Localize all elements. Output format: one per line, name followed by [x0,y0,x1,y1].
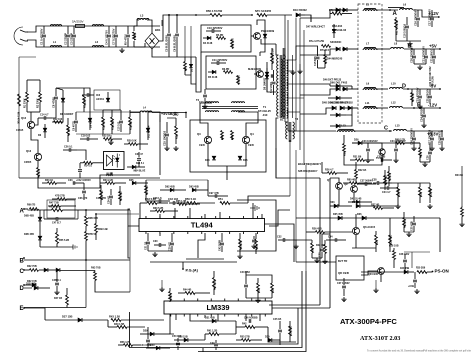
capacitor C15b [314,50,320,68]
svg-text:C10 225/50V: C10 225/50V [207,26,223,30]
diode D92 [160,186,186,192]
svg-text:C23 1000/16V: C23 1000/16V [362,140,378,143]
svg-text:R3 150K: R3 150K [84,98,87,108]
svg-text:C13: C13 [199,101,204,104]
wire [202,348,204,352]
inductor L7 [363,42,377,51]
node A label [20,208,25,214]
inductor L13 [337,124,355,133]
svg-text:R44 4B: R44 4B [183,289,192,292]
capacitor C20 [410,46,417,64]
ground [152,252,157,257]
resistor R24c [455,174,465,227]
svg-text:C34: C34 [328,236,333,239]
diode stack2 [328,96,352,100]
wire [461,166,463,206]
svg-text:D9 4148: D9 4148 [90,118,93,128]
IC TL431 [376,149,385,160]
bridge rectifier BD1 [145,28,161,49]
diode D47 [332,24,335,38]
RC box [47,200,75,218]
svg-text:R69: R69 [420,153,423,158]
transistor Q4 [242,132,254,147]
svg-text:D4 4148: D4 4148 [203,42,213,45]
svg-text:R26 4.7: R26 4.7 [325,169,334,172]
wire [235,326,237,328]
svg-text:R49: R49 [170,294,173,299]
wire [342,9,358,11]
label R7a [309,40,325,43]
wire [208,144,246,166]
svg-text:D40: D40 [150,344,155,347]
main HV bus [285,15,288,131]
wire [363,267,365,269]
resistor R37 [429,183,433,203]
svg-text:R3B 63B: R3B 63B [88,217,98,220]
wire [19,57,36,178]
diode stack4 [330,124,346,128]
ground [421,123,426,128]
resistor R37b [371,204,394,210]
wire [185,75,196,84]
svg-text:5A/250V: 5A/250V [72,20,84,24]
wire [248,196,290,203]
svg-text:C37 560/4V: C37 560/4V [360,180,373,183]
capacitor C44 [140,334,151,348]
svg-text:BD1: BD1 [155,28,161,32]
diode D31 [200,317,236,323]
secondary taps [287,60,304,112]
svg-text:C22 1000/10: C22 1000/10 [431,48,434,63]
svg-text:R30 56B: R30 56B [120,191,123,201]
svg-text:NTC SCK055: NTC SCK055 [255,9,272,13]
wire [159,115,161,175]
svg-text:R9 10K: R9 10K [68,127,71,136]
resistor R23 [42,179,66,184]
wire [19,177,160,179]
wire [407,130,443,132]
wire [404,48,441,50]
wire [147,327,149,334]
resistor R69 [419,143,423,162]
capacitor C8 [52,88,59,110]
wire [377,107,388,109]
svg-text:R48 1BB: R48 1BB [214,280,217,290]
svg-text:R7B 5K: R7B 5K [88,233,97,236]
svg-text:R45: R45 [256,245,259,250]
svg-text:R58 4.7/0.5W: R58 4.7/0.5W [206,9,223,13]
wire [413,10,440,18]
svg-text:R47: R47 [312,247,315,252]
svg-text:C49: C49 [210,342,215,345]
svg-text:C18 1000/16: C18 1000/16 [404,23,407,38]
svg-text:R26 45B: R26 45B [312,228,322,231]
svg-text:B: B [20,259,25,265]
wire [95,285,105,292]
wire [148,233,256,236]
capacitor C2 [64,26,71,47]
ground [373,280,378,293]
rectifier D23 [330,102,353,111]
svg-text:D35 45B: D35 45B [333,213,343,216]
resistor R75b [324,50,328,68]
wire [261,39,276,44]
capacitor C36b [78,183,88,200]
wire [290,239,312,241]
IC U1 TL494 [139,216,265,234]
node E label [20,306,25,312]
capacitor C23 [416,87,423,104]
svg-text:C6 B.EL/200V: C6 B.EL/200V [173,35,177,52]
svg-text:R20: R20 [176,134,179,139]
svg-text:R50 5.1K: R50 5.1K [185,197,196,201]
svg-text:C50 104: C50 104 [172,335,182,338]
diode D36 [357,213,366,220]
capacitor C98 [152,197,170,203]
svg-text:C28 1B: C28 1B [389,172,392,181]
svg-text:C24 470/16V: C24 470/16V [420,106,424,122]
ground [365,158,370,163]
wire [338,203,340,206]
resistor R46 [239,236,243,254]
wire [159,15,175,41]
wire [105,291,130,293]
svg-text:R47 1B: R47 1B [54,297,62,300]
right mid extra4 [377,156,392,162]
svg-text:D27 15B: D27 15B [62,315,73,319]
resistor R36 [389,245,399,269]
wire [279,340,281,345]
svg-text:D44 MBRC45: D44 MBRC45 [327,58,343,61]
wire pins LM339 bottom [176,314,260,321]
wire [76,112,130,134]
svg-text:C8 47/50: C8 47/50 [52,97,56,108]
node D [402,84,409,90]
wire [128,209,139,226]
vertical bus mid [290,140,306,271]
svg-text:D29: D29 [143,330,148,333]
wire [134,20,139,26]
varistor RV1 [124,26,131,47]
resistor R55 [236,336,262,342]
diode D26 [352,139,370,145]
wire [420,161,430,163]
wire [146,179,208,181]
wire [139,203,141,219]
svg-text:L15: L15 [395,124,400,128]
capacitor C33 [319,242,325,258]
wire [103,109,121,111]
svg-text:R8 2.7K: R8 2.7K [232,38,235,47]
wire [77,150,86,160]
resistor R67c [145,180,149,199]
optocoupler IC2 [104,152,125,177]
label R62v [432,75,435,86]
wire [351,86,353,89]
resistor R67a [44,206,78,212]
svg-text:ATX-310T 2.03: ATX-310T 2.03 [360,335,400,342]
svg-text:R66 7B: R66 7B [27,204,36,207]
diode D62a [48,268,60,272]
svg-text:R28 10B: R28 10B [389,245,399,248]
ground [237,254,242,259]
svg-text:R46 15B: R46 15B [240,240,243,250]
label C22v [430,66,432,86]
resistor R73 [329,9,352,15]
wire [200,103,212,136]
svg-text:R80 4B: R80 4B [347,179,356,182]
sideways ground [70,245,77,250]
transistor Q6 [353,225,376,235]
label D48 [322,101,348,105]
svg-text:L12: L12 [391,101,396,105]
rectifier D20 [332,8,347,32]
ground [422,162,427,167]
svg-text:C2655: C2655 [24,161,32,164]
capacitor C46 [244,317,258,323]
svg-text:R17 4.7K: R17 4.7K [103,119,106,130]
diode D13 [265,68,269,80]
wire [389,218,391,228]
svg-text:R7 2.7K: R7 2.7K [238,75,241,84]
svg-text:D40 45B: D40 45B [400,267,410,270]
svg-text:C9 47/25: C9 47/25 [73,120,76,131]
resistor R30 [119,186,123,205]
svg-text:C42 500B: C42 500B [219,240,222,251]
diode D9 [88,110,92,130]
diode D6 [38,124,47,138]
svg-text:R3B 14B: R3B 14B [98,228,108,231]
transistor Q13 [24,149,42,164]
svg-text:R52: R52 [258,288,261,293]
svg-text:R55 27B: R55 27B [240,336,250,339]
wire [414,63,426,65]
subtitle ATX-310T [360,335,400,342]
svg-text:D93 45B: D93 45B [189,186,199,189]
svg-text:R23 10K: R23 10K [316,244,326,247]
diode D3Bd [24,283,38,290]
wire [300,10,336,18]
ground [395,204,432,209]
inductor L8 [391,42,404,50]
capacitor C38b [399,254,410,272]
svg-text:C15 B25: C15 B25 [314,56,317,66]
resistor R61 [395,17,399,41]
diode D25 [129,179,148,185]
wire [318,67,326,69]
wire [198,271,306,352]
wire [186,258,224,260]
svg-text:B1: B1 [280,118,284,122]
svg-text:C33: C33 [319,252,322,257]
diode D15 [238,156,248,162]
label C4B47B [95,197,108,240]
diode D60 [24,210,42,228]
wire [416,142,420,144]
wire [355,214,357,218]
wire [27,26,160,32]
wire [300,89,336,95]
capacitor C38 [372,179,392,185]
resistor R52 [257,278,261,298]
svg-text:D11 FR104: D11 FR104 [148,125,151,138]
wire [276,130,320,178]
ground [417,65,422,70]
inductor L2 [92,25,103,47]
svg-text:ATX-300P4-PFC: ATX-300P4-PFC [340,317,397,326]
svg-text:R23 1K: R23 1K [45,179,54,182]
resistor R12 [53,118,63,123]
wire [152,49,166,57]
wire [260,42,265,52]
ground [290,70,295,75]
svg-text:光耦: 光耦 [105,172,113,177]
capacitor C4 [105,26,112,47]
svg-text:C33: C33 [68,179,73,182]
wire [27,111,40,113]
wire [238,112,258,136]
svg-text:L1: L1 [53,40,57,44]
capacitor C1 [40,26,47,47]
svg-text:Q6 A1015: Q6 A1015 [363,225,376,229]
resistor R8 [231,38,235,49]
svg-text:Q13: Q13 [26,149,32,153]
resistor R33 [140,197,168,205]
inductor L5 [363,3,377,12]
diode D28 [174,336,205,342]
resistor R42 [236,323,268,329]
wire [377,48,390,50]
wire [267,80,276,92]
resistor R18 [111,110,115,134]
IC U2 LM339 [164,299,272,317]
wire [31,129,38,153]
wire [404,252,430,268]
resistor R7 [237,75,241,85]
svg-text:R31 B6: R31 B6 [353,156,362,159]
svg-text:R29 10K: R29 10K [127,140,137,143]
inductor L3 [137,14,149,21]
drive transformer T2 [196,98,258,112]
wire [198,233,205,258]
resistor R5 [216,34,226,39]
svg-text:D3B 45B: D3B 45B [26,283,36,286]
svg-text:C34 47: C34 47 [108,195,111,204]
wire [306,231,310,233]
resistor R14 [80,161,104,167]
capacitor C26r [410,128,417,146]
svg-text:IC3: IC3 [96,93,101,97]
svg-text:C17 2200/16V: C17 2200/16V [428,9,432,26]
wire [352,142,420,144]
resistor R66a [27,204,39,211]
capacitor C29b [439,130,445,146]
resistor R53 [271,278,275,298]
diode D7 [106,92,110,102]
wire [329,178,331,308]
transistor Q9 [344,182,357,192]
svg-text:C97 47B: C97 47B [209,192,219,195]
svg-text:R28 4BB: R28 4BB [390,235,393,245]
svg-text:C36 470: C36 470 [78,197,88,200]
svg-text:R31 47B: R31 47B [101,190,104,200]
svg-text:C4 0.1/275V: C4 0.1/275V [105,30,109,45]
diode D30 [24,228,42,247]
svg-text:R75 470K: R75 470K [17,112,21,124]
wire [300,49,336,55]
wire [129,210,131,292]
wire [166,56,196,58]
svg-text:C16 1000/16V: C16 1000/16V [414,9,418,26]
transistor Q3 [197,132,212,147]
svg-text:R43 1.2K: R43 1.2K [109,315,120,319]
svg-text:R54 B2B: R54 B2B [290,326,293,336]
resistor R74 [320,45,331,52]
svg-text:R37 4B: R37 4B [430,188,433,197]
svg-text:RV 470V: RV 470V [124,34,128,45]
capacitor C7 [112,26,119,47]
wire [204,315,206,318]
right mid extra3 [350,156,374,162]
diode D24 [127,162,146,173]
capacitor C3 [70,26,77,47]
svg-text:R19 MB: R19 MB [130,121,133,130]
svg-text:C7 0.22/275V: C7 0.22/275V [112,28,116,45]
svg-text:S3B FREQUENCY: S3B FREQUENCY [298,171,318,173]
svg-text:D33: D33 [330,201,335,204]
diode D40 [146,344,170,350]
resistor R50 [182,197,215,205]
wire [259,52,261,56]
svg-text:A: A [393,11,398,17]
capacitor C6 [173,14,180,57]
resistor R4 [184,57,188,75]
wire [296,261,336,263]
wire [352,247,376,249]
svg-text:D39: D39 [265,336,270,339]
rectifier D22 [330,81,348,92]
svg-text:Q7: Q7 [327,178,331,182]
resistor R31 [100,185,104,205]
wire [355,218,357,227]
wire [150,261,237,263]
diode D3 [189,57,193,75]
wire [27,40,160,47]
capacitor C45 [273,318,282,341]
svg-text:C26 0.1: C26 0.1 [64,146,73,149]
resistor R29 [124,140,148,146]
wire [269,304,320,306]
ground [202,104,207,109]
capacitor C24c [380,186,398,194]
wire [342,48,358,50]
capacitor C22 [431,48,437,64]
resistor R3B [85,210,99,230]
capacitor C5 [165,14,172,57]
resistor R38 [416,268,432,274]
svg-text:C24 2200/10V: C24 2200/10V [390,140,406,143]
wire [403,88,441,90]
svg-text:R56 4.7K: R56 4.7K [120,341,131,344]
transformer T1 core boost [283,48,285,119]
svg-text:C945: C945 [248,144,254,147]
transistor Q2 [248,67,263,77]
svg-text:L2: L2 [95,40,99,44]
inductor L12 [390,101,403,109]
wire [310,15,312,22]
resistor R22 [102,135,122,141]
svg-text:D24 5.1: D24 5.1 [136,162,145,165]
